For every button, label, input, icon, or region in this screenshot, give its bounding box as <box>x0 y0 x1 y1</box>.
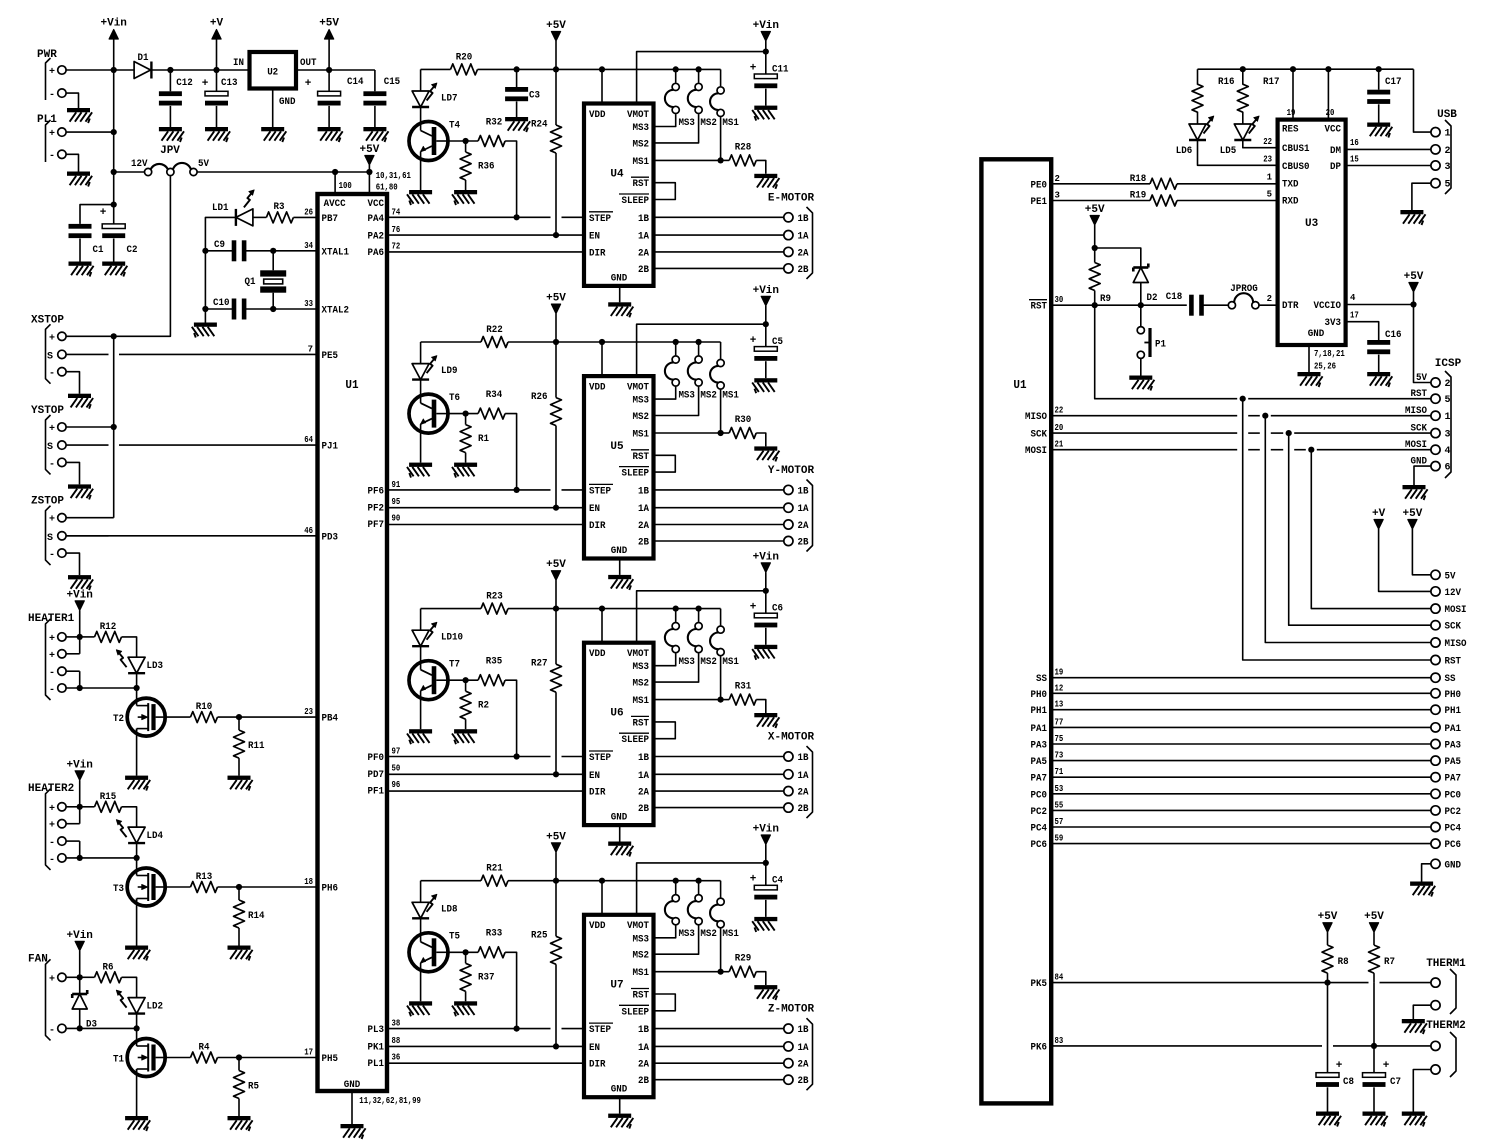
svg-text:1B: 1B <box>638 214 649 225</box>
junction MS1/R31 <box>718 697 724 703</box>
svg-text:-: - <box>49 550 55 561</box>
junction VCCIO/+5V <box>1410 301 1416 307</box>
junction R27/EN <box>553 771 559 777</box>
wire HEATER2+2 <box>66 807 80 824</box>
pin SLEEP <box>619 194 649 207</box>
svg-text:PF7: PF7 <box>368 520 385 531</box>
svg-text:PA5: PA5 <box>1445 757 1462 768</box>
U1 pin 36 PL1 <box>368 1052 401 1070</box>
wire STEP row from U1 <box>387 489 584 491</box>
ground R14 <box>228 946 253 961</box>
svg-text:+: + <box>49 129 55 140</box>
ground R2 <box>452 729 477 744</box>
connector HEATER2 <box>28 783 74 870</box>
resistor R5 (pulldown) <box>234 1058 245 1117</box>
svg-text:MS2: MS2 <box>633 139 650 150</box>
capacitor C17 <box>1367 69 1390 122</box>
led LD1 <box>236 190 254 226</box>
resistor R18 <box>1150 178 1177 189</box>
svg-text:EN: EN <box>589 1043 600 1054</box>
pin EN <box>589 771 600 782</box>
wire LD1 cathode down <box>205 217 236 250</box>
wire XSTOP signal to PE5 <box>66 353 317 355</box>
wire 1A <box>654 1045 784 1047</box>
pin VDD <box>589 649 606 660</box>
svg-text:MS3: MS3 <box>633 934 650 945</box>
pin DIR <box>589 1060 606 1071</box>
svg-text:R32: R32 <box>486 116 503 128</box>
led LD8 <box>412 894 437 934</box>
connector THERM2 <box>1426 1020 1466 1077</box>
jumper MS3 <box>665 878 679 925</box>
pin EN <box>589 232 600 243</box>
ground R36 <box>452 190 477 205</box>
power +Vin driver U6 <box>753 551 779 590</box>
svg-text:+: + <box>1336 1060 1343 1072</box>
wire 2A <box>654 1062 784 1064</box>
wire T4 emitter to ground <box>420 159 422 190</box>
ground C14 <box>318 127 343 142</box>
junction +5V rail/R25 <box>553 878 559 884</box>
wire RST-SLEEP strap <box>654 455 676 472</box>
svg-text:2A: 2A <box>638 248 649 259</box>
wire ICSP GND to ground <box>1414 466 1431 485</box>
svg-text:GND: GND <box>344 1080 361 1091</box>
svg-text:STEP: STEP <box>589 753 611 764</box>
wire endstop V-select vertical <box>113 336 115 517</box>
label MS3 <box>678 929 695 940</box>
svg-text:SCK: SCK <box>1031 430 1048 441</box>
svg-text:S: S <box>47 351 53 362</box>
svg-text:C3: C3 <box>529 89 540 101</box>
jumper MS3 <box>665 66 679 113</box>
label C11 <box>772 63 789 75</box>
svg-text:2A: 2A <box>798 521 809 532</box>
wire +Vin vertical <box>113 39 115 205</box>
svg-text:RST: RST <box>633 718 650 729</box>
wire C13 to U2 IN <box>217 69 250 71</box>
svg-text:DP: DP <box>1330 162 1341 173</box>
junction MS1/R28 <box>718 157 724 163</box>
ground U6 <box>608 842 633 857</box>
label U7 <box>610 980 623 992</box>
label R4 <box>199 1042 210 1054</box>
svg-text:S: S <box>47 442 53 453</box>
pin 3V3 <box>1325 311 1359 330</box>
svg-text:R19: R19 <box>1130 190 1147 202</box>
wire +5V rail of U7 block <box>421 881 721 903</box>
junction VCC rail <box>1325 66 1331 72</box>
pin STEP <box>589 751 613 764</box>
resistor R7 <box>1369 932 1380 982</box>
junction HEATER2- <box>77 855 83 861</box>
svg-text:VDD: VDD <box>589 383 606 394</box>
connector HEATER1 <box>28 613 75 700</box>
label R36 <box>478 160 495 172</box>
svg-text:PA6: PA6 <box>368 248 385 259</box>
svg-text:1A: 1A <box>798 504 809 515</box>
power +5V driver U7 <box>546 831 566 880</box>
connector E-MOTOR <box>768 192 815 279</box>
U1 pin 18 PH6 <box>304 877 338 895</box>
svg-text:PF1: PF1 <box>368 786 385 797</box>
svg-text:PL3: PL3 <box>368 1025 385 1036</box>
pin 1A <box>638 1043 649 1054</box>
label LD8 <box>441 904 458 916</box>
ground R1 <box>452 463 477 478</box>
pin 2A <box>638 1060 649 1071</box>
svg-text:+: + <box>49 515 55 526</box>
svg-text:MS2: MS2 <box>633 679 650 690</box>
wire DIR row from U1 <box>387 524 584 526</box>
pin MS1 <box>633 430 650 441</box>
junction +Vin/JPV <box>111 169 117 175</box>
ground C2 <box>102 262 127 277</box>
wire 1A <box>654 234 784 236</box>
wire +5V vertical <box>328 39 330 70</box>
svg-text:MS1: MS1 <box>722 118 739 129</box>
svg-text:1B: 1B <box>638 486 649 497</box>
ground PWR- <box>67 108 92 123</box>
svg-text:12: 12 <box>1055 683 1064 693</box>
wire +Vin to HEATER1+ <box>66 610 80 637</box>
label 12V <box>131 158 148 170</box>
ground ICSP <box>1403 485 1428 500</box>
pin 2B <box>638 265 649 276</box>
wire JPROG to DTR <box>1259 304 1278 306</box>
power +5V R8 <box>1318 911 1338 932</box>
svg-text:RST: RST <box>633 179 650 190</box>
label R9 <box>1100 293 1111 305</box>
svg-text:R15: R15 <box>100 791 117 803</box>
U1 pin 83 PK6 <box>1031 1036 1064 1054</box>
wire U7 GND to ground <box>619 1097 621 1113</box>
svg-text:U3: U3 <box>1305 218 1319 230</box>
resistor R32 <box>478 136 505 147</box>
svg-text:C11: C11 <box>772 63 789 75</box>
wire JPV common down to endstops <box>114 176 171 336</box>
svg-text:1A: 1A <box>638 771 649 782</box>
svg-text:R3: R3 <box>274 201 285 213</box>
wire YSTOP signal to PJ1 <box>66 444 317 446</box>
junction LED/T1 drain <box>134 1025 140 1031</box>
svg-text:GND: GND <box>611 813 628 824</box>
svg-text:PK1: PK1 <box>368 1042 385 1053</box>
label R35 <box>486 656 503 668</box>
svg-text:C12: C12 <box>176 77 193 89</box>
svg-text:MS3: MS3 <box>633 123 650 134</box>
svg-text:XTAL2: XTAL2 <box>322 306 350 317</box>
wire RST down to ICSP row <box>1095 305 1238 399</box>
label C12 <box>176 77 193 89</box>
power +Vin driver U7 <box>753 824 779 863</box>
wire DM to USB2 <box>1346 148 1431 150</box>
resistor R31 <box>721 694 766 713</box>
svg-text:1: 1 <box>1445 129 1451 140</box>
svg-text:76: 76 <box>392 225 401 235</box>
wire MS3 to pin <box>654 653 676 665</box>
svg-text:USB: USB <box>1437 109 1457 121</box>
svg-text:+5V: +5V <box>546 20 566 32</box>
wire EN row from U1 <box>387 234 584 236</box>
ground T7 <box>407 729 432 744</box>
wire HEATER2-1 <box>66 841 80 858</box>
wire MS3 to pin <box>654 387 676 399</box>
label C14 <box>347 76 364 88</box>
svg-text:HEATER1: HEATER1 <box>28 613 75 625</box>
U1 pin 71 PA7 <box>1031 767 1064 785</box>
ground crystal <box>192 323 217 338</box>
svg-text:PC6: PC6 <box>1445 840 1462 851</box>
label C6 <box>772 603 783 615</box>
zener diode D2 <box>1133 264 1148 306</box>
resistor R36 <box>460 141 471 190</box>
svg-text:R35: R35 <box>486 656 503 668</box>
svg-text:R12: R12 <box>100 621 117 633</box>
ground T5 <box>407 1001 432 1016</box>
wire C8 vertical <box>1327 983 1329 1073</box>
svg-text:2A: 2A <box>798 788 809 799</box>
svg-text:PC2: PC2 <box>1445 807 1462 818</box>
svg-text:2: 2 <box>1445 146 1451 157</box>
label MS1 <box>722 391 739 402</box>
wire VMOT to +Vin line <box>637 591 766 643</box>
resistor R25 (EN pull) <box>551 881 562 1047</box>
pin GND U3 <box>1308 329 1346 372</box>
svg-text:VMOT: VMOT <box>627 110 649 121</box>
label LD10 <box>441 632 463 644</box>
resistor R29 <box>721 966 766 985</box>
svg-text:1A: 1A <box>638 1043 649 1054</box>
label MS3 <box>678 391 695 402</box>
ground T3 <box>125 946 150 961</box>
svg-text:90: 90 <box>392 513 401 523</box>
resistor R37 <box>460 952 471 1001</box>
wire RST row <box>1051 304 1187 306</box>
wire MS1 to pin <box>654 117 721 160</box>
U1 pin 91 PF6 <box>368 480 401 498</box>
label R33 <box>486 928 503 940</box>
label R14 <box>248 910 265 922</box>
ground R29 <box>754 985 779 1000</box>
svg-text:CBUS0: CBUS0 <box>1282 162 1310 173</box>
svg-text:RST: RST <box>633 452 650 463</box>
ground R5 <box>228 1116 253 1131</box>
svg-text:88: 88 <box>392 1036 401 1046</box>
label R26 <box>531 391 548 403</box>
IC U6 stepper driver <box>584 643 654 825</box>
junction HEATER1- <box>77 685 83 691</box>
zener diode D3 <box>72 977 87 1028</box>
ground C4 <box>752 917 777 932</box>
svg-text:20: 20 <box>1326 108 1335 118</box>
svg-text:+: + <box>49 634 55 645</box>
svg-text:72: 72 <box>392 242 401 252</box>
junction C13/+V <box>213 67 219 73</box>
pin TXD <box>1267 173 1299 191</box>
wire 2B <box>654 807 784 809</box>
svg-text:DIR: DIR <box>589 248 606 259</box>
capacitor C15 <box>363 91 386 127</box>
svg-text:R24: R24 <box>531 118 548 130</box>
label R10 <box>196 701 213 713</box>
svg-text:PC2: PC2 <box>1031 807 1048 818</box>
wire XSTOP- to ground <box>66 372 79 394</box>
U1 pin 46 PD3 <box>304 526 338 544</box>
svg-text:RXD: RXD <box>1282 197 1299 208</box>
svg-text:23: 23 <box>1263 155 1272 165</box>
U1 pin 50 PD7 <box>368 763 401 781</box>
connector XSTOP <box>31 314 66 383</box>
capacitor C3 <box>505 69 528 117</box>
wire ZSTOP signal to PD3 <box>66 535 317 537</box>
wire VDD <box>601 609 603 643</box>
wire +V to 12V pin <box>1379 529 1431 591</box>
svg-text:TXD: TXD <box>1282 180 1299 191</box>
capacitor C16 <box>1367 340 1390 372</box>
junction R33/STEP <box>514 1026 520 1032</box>
pin DM <box>1330 138 1359 157</box>
svg-text:R31: R31 <box>735 681 752 693</box>
wire SCK vertical to EXP <box>1289 433 1431 625</box>
pin 1B <box>638 486 649 497</box>
jumper MS3 <box>665 606 679 653</box>
wire base junction <box>448 140 478 142</box>
label R37 <box>478 972 495 984</box>
transistor T5 <box>409 933 448 972</box>
junction C9 left <box>202 248 208 254</box>
junction R17 <box>1240 66 1246 72</box>
wire 1B <box>654 216 784 218</box>
pin 1A <box>638 771 649 782</box>
wire RST-SLEEP strap <box>654 994 676 1011</box>
ground C16 <box>1367 372 1392 387</box>
capacitor C6 (polarized) <box>754 591 777 645</box>
wire 1B <box>654 489 784 491</box>
jumper MS2 <box>688 66 702 113</box>
svg-text:EN: EN <box>589 504 600 515</box>
mosfet T2 <box>127 688 165 736</box>
svg-text:R16: R16 <box>1218 76 1235 88</box>
wire U6 GND to ground <box>619 825 621 841</box>
label R29 <box>735 953 752 965</box>
svg-text:R14: R14 <box>248 910 265 922</box>
pin MS2 <box>633 139 650 150</box>
svg-text:Q1: Q1 <box>245 276 256 288</box>
svg-text:97: 97 <box>392 747 401 757</box>
connector PWR <box>37 49 66 101</box>
svg-text:33: 33 <box>304 299 313 309</box>
junction RES rail <box>1290 66 1296 72</box>
pin SLEEP <box>619 467 649 480</box>
svg-text:MS3: MS3 <box>633 662 650 673</box>
power +Vin top <box>101 18 127 40</box>
svg-text:+5V: +5V <box>1404 271 1424 283</box>
transistor T7 <box>409 661 448 700</box>
svg-text:MS2: MS2 <box>700 391 717 402</box>
svg-text:22: 22 <box>1055 406 1064 416</box>
capacitor C13 (polarized) <box>205 70 228 127</box>
IC U1 (right half) <box>981 159 1051 1103</box>
wire EN row from U1 <box>387 1045 584 1047</box>
label C17 <box>1385 76 1402 88</box>
svg-text:MOSI: MOSI <box>1025 446 1047 457</box>
svg-text:THERM2: THERM2 <box>1426 1020 1466 1032</box>
svg-text:SLEEP: SLEEP <box>622 735 650 746</box>
wire T3 gate to R13 <box>165 886 190 888</box>
label C8 plus <box>1336 1060 1343 1072</box>
label LD1 <box>212 202 229 214</box>
pin VDD <box>589 110 606 121</box>
junction C14/+5V <box>326 67 332 73</box>
regulator U2 <box>250 52 297 89</box>
label C8 <box>1343 1076 1354 1088</box>
U1 pin 88 PK1 <box>368 1036 401 1054</box>
svg-text:STEP: STEP <box>589 486 611 497</box>
svg-text:GND: GND <box>611 273 628 284</box>
junction T5 base <box>463 949 469 955</box>
svg-text:+5V: +5V <box>1364 911 1384 923</box>
pin 2A <box>638 248 649 259</box>
wire base junction <box>448 951 478 953</box>
junction YSTOP+ <box>111 424 117 430</box>
svg-text:R21: R21 <box>486 863 503 875</box>
svg-text:7,18,21: 7,18,21 <box>1314 349 1345 359</box>
svg-text:1A: 1A <box>798 771 809 782</box>
svg-text:2: 2 <box>1445 379 1451 390</box>
svg-text:C15: C15 <box>384 76 401 88</box>
svg-text:+: + <box>49 821 55 832</box>
svg-text:XSTOP: XSTOP <box>31 314 64 326</box>
junction VDD <box>599 339 605 345</box>
ground U1 <box>341 1124 366 1139</box>
junction PL1/+Vin <box>111 129 117 135</box>
svg-text:LD2: LD2 <box>147 1000 164 1012</box>
resistor R10 <box>191 712 218 723</box>
label T5 <box>449 931 460 943</box>
label R8 <box>1338 956 1349 968</box>
wire R13 to U1 <box>218 886 318 888</box>
label C18 <box>1166 291 1183 303</box>
IC U1 (left half) <box>318 194 388 1091</box>
resistor R2 <box>460 680 471 729</box>
wire ZSTOP+ to V-select <box>66 517 114 519</box>
ground C12 <box>159 127 184 142</box>
svg-text:20: 20 <box>1055 423 1064 433</box>
ground C5 <box>752 378 777 393</box>
wire VDD <box>601 881 603 915</box>
wire +Vin to 12V pin <box>114 171 145 173</box>
svg-text:100: 100 <box>339 181 352 191</box>
svg-text:96: 96 <box>392 780 401 790</box>
svg-text:1B: 1B <box>798 753 809 764</box>
svg-text:R22: R22 <box>486 324 503 336</box>
svg-text:2B: 2B <box>638 538 649 549</box>
junction XTAL1/Q1 <box>270 248 276 254</box>
label R31 <box>735 681 752 693</box>
wire MISO vertical to EXP <box>1265 416 1431 643</box>
junction R8/PK5 <box>1324 980 1330 986</box>
svg-text:PF2: PF2 <box>368 503 385 514</box>
label R19 <box>1130 190 1147 202</box>
svg-text:R1: R1 <box>478 433 489 445</box>
svg-text:MS1: MS1 <box>722 929 739 940</box>
connector ZSTOP <box>31 496 66 565</box>
resistor R28 <box>721 155 766 174</box>
svg-text:MS2: MS2 <box>700 929 717 940</box>
svg-text:84: 84 <box>1055 973 1064 983</box>
wire PH0 row from U1 <box>1051 692 1431 694</box>
